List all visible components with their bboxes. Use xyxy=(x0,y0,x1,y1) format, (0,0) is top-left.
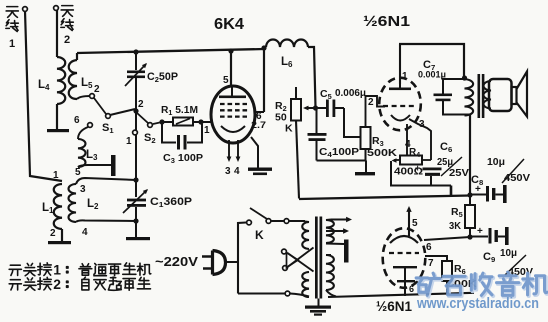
svg-text:2: 2 xyxy=(64,34,70,46)
tube V2 envelope dashed xyxy=(379,78,421,131)
heater winding ground bar xyxy=(326,243,344,246)
L3 terminal 5 to chassis bar xyxy=(78,165,111,167)
label 天线2 xyxy=(61,6,73,17)
svg-text:3: 3 xyxy=(225,166,231,177)
svg-text:2.7: 2.7 xyxy=(251,120,266,130)
resistor R4 400ohm xyxy=(400,156,422,165)
T1 HT secondary xyxy=(326,255,334,290)
R2 bottom wire to B+ rail xyxy=(296,121,299,199)
terminal 2 of L5 xyxy=(90,94,95,99)
svg-text:2: 2 xyxy=(368,97,374,108)
inductor L3 xyxy=(88,123,93,128)
wire antenna2 to L4 xyxy=(56,10,58,57)
output transformer T2 primary xyxy=(462,75,467,80)
ground under L1 xyxy=(48,241,71,244)
node 2 junction xyxy=(133,108,138,113)
T1 voltage selector xyxy=(282,249,287,254)
antenna terminal 2 xyxy=(54,6,59,11)
V2 pin 4 wire xyxy=(406,124,408,156)
svg-text:+: + xyxy=(415,163,420,173)
svg-text:C250P: C250P xyxy=(147,71,178,84)
capacitor C3 100P xyxy=(162,124,176,143)
capacitor C4 100P xyxy=(316,108,318,133)
node junction R2/C4/C5 xyxy=(313,105,318,110)
resistor R3 500K xyxy=(361,127,371,149)
V2 plate xyxy=(399,84,401,88)
R4 left wire with arrow xyxy=(394,159,400,161)
svg-text:6: 6 xyxy=(426,242,432,253)
svg-text:0.006μ: 0.006μ xyxy=(335,87,366,99)
svg-text:2: 2 xyxy=(53,276,61,292)
svg-text:4: 4 xyxy=(82,227,88,238)
svg-text:www.crystalradio.cn: www.crystalradio.cn xyxy=(416,295,539,312)
svg-text:5: 5 xyxy=(223,75,229,86)
wire S1 to node 2 xyxy=(110,109,135,115)
inductor L5 xyxy=(69,60,77,99)
resistor R1 5.1M xyxy=(162,121,173,123)
T1 core ground xyxy=(318,299,320,307)
V3 anode arc xyxy=(390,236,418,243)
svg-text:500K: 500K xyxy=(367,147,397,159)
resistor R5 3K xyxy=(469,197,471,205)
label 天线1 xyxy=(6,7,18,18)
power transformer T1 primary upper xyxy=(305,221,309,224)
svg-text:4: 4 xyxy=(234,166,240,177)
R3 top wire to grid xyxy=(366,96,386,127)
svg-text:3: 3 xyxy=(419,119,425,130)
6K4 plate xyxy=(231,87,233,96)
wire S2 to R1 node xyxy=(153,122,162,124)
wire C6 bottom to rail xyxy=(450,186,453,198)
V3 pin 6 wire to R5 node xyxy=(424,237,470,240)
antenna terminal 1 xyxy=(23,7,28,12)
ground at 6K4 cathode xyxy=(248,168,272,171)
ground under R3 xyxy=(365,161,367,173)
potentiometer R2 50K xyxy=(291,99,301,121)
svg-text:0.001μ: 0.001μ xyxy=(418,70,446,81)
T1 core xyxy=(315,217,318,299)
wire L2-3 to C1 xyxy=(76,178,136,184)
svg-text:K: K xyxy=(285,123,293,135)
B+ rail bottom xyxy=(299,196,470,200)
transformer T2 core xyxy=(478,74,481,118)
capacitor C2 50P variable xyxy=(135,52,137,70)
capacitor C1 360P variable tuning xyxy=(127,199,146,202)
svg-text:½6N1: ½6N1 xyxy=(376,298,412,314)
wire L5 bottom to terminal 2 xyxy=(77,96,90,99)
svg-text:2: 2 xyxy=(50,228,56,239)
svg-text:10μ: 10μ xyxy=(500,247,517,259)
inductor L4 xyxy=(57,57,65,104)
svg-text:450V: 450V xyxy=(504,172,530,184)
svg-text:C3 100P: C3 100P xyxy=(163,152,203,165)
T1 heater secondary xyxy=(326,219,331,222)
T2 secondary xyxy=(484,81,492,109)
capacitor C8 10u/450V xyxy=(467,192,472,197)
svg-text:1: 1 xyxy=(9,38,15,50)
wire L5 top to rail xyxy=(76,53,78,60)
svg-text:5: 5 xyxy=(75,167,81,178)
capacitor C9 10u/450V xyxy=(470,236,488,238)
V2 top wire to output transformer xyxy=(399,44,464,77)
wire node2 to S2 xyxy=(137,113,148,123)
V3 grid dashed xyxy=(389,252,419,254)
V2 grid dashed xyxy=(383,105,417,107)
terminal 1 node xyxy=(135,113,137,130)
ground under C1 xyxy=(126,237,150,240)
V3 pin 7 wire to R6 xyxy=(425,256,447,261)
svg-text:7: 7 xyxy=(428,258,434,269)
V2 pin 1 wire xyxy=(399,44,401,84)
switch S1 xyxy=(94,98,106,114)
svg-text:C4100P: C4100P xyxy=(319,146,359,159)
watermark text xyxy=(416,272,548,297)
svg-text:K: K xyxy=(255,228,264,242)
6K4 pins 3 4 xyxy=(228,140,230,158)
svg-text:C1360P: C1360P xyxy=(150,196,192,209)
V2 grid pin 2 stub xyxy=(377,106,385,108)
svg-text:1: 1 xyxy=(402,71,408,82)
loudspeaker xyxy=(489,79,512,111)
switch S2 xyxy=(148,123,153,128)
wire C5 to R3 xyxy=(344,108,361,137)
ground under L4 xyxy=(47,129,69,132)
wire C4 to R3 ground xyxy=(317,160,367,162)
B+ drop from output transformer xyxy=(469,115,471,196)
power switch K xyxy=(238,223,246,263)
R4 right wire to C6 xyxy=(422,159,431,161)
svg-text:2: 2 xyxy=(94,84,100,95)
svg-text:+: + xyxy=(477,226,483,237)
svg-text:3K: 3K xyxy=(449,220,461,232)
svg-text:1: 1 xyxy=(204,125,210,136)
V3 pin 5 wire with arrow xyxy=(406,206,411,212)
heater bottom wire xyxy=(328,293,474,297)
svg-text:6: 6 xyxy=(74,115,80,126)
tube 6K4 envelope xyxy=(211,86,255,143)
svg-text:½6N1: ½6N1 xyxy=(363,14,410,30)
svg-text:6: 6 xyxy=(409,284,414,294)
svg-text:3: 3 xyxy=(80,184,86,195)
6K4 grids dashed xyxy=(220,103,247,105)
T1 primary lower xyxy=(302,272,309,297)
6K4 pin 6 wire to plate line xyxy=(255,111,264,113)
svg-text:1: 1 xyxy=(126,136,132,147)
top rail xyxy=(77,49,264,53)
wire L2-4 to C1 xyxy=(76,220,136,222)
inductor L6 xyxy=(261,45,266,50)
V3 cathode bars xyxy=(393,266,417,268)
svg-text:1: 1 xyxy=(53,170,59,181)
rectifier tube V3 half 6N1 envelope xyxy=(383,228,426,288)
heater arrows xyxy=(331,219,348,221)
resistor R6 500K xyxy=(442,261,452,281)
svg-text:2: 2 xyxy=(138,99,144,110)
svg-text:6K4: 6K4 xyxy=(214,16,244,33)
svg-text:25V: 25V xyxy=(449,167,469,179)
svg-text:R1 5.1M: R1 5.1M xyxy=(161,104,198,117)
V2 cathode xyxy=(391,115,410,121)
switch note text line 2 xyxy=(9,280,21,290)
wire antenna1 down to L1 xyxy=(25,11,62,181)
switch note text line 1 xyxy=(9,265,21,275)
svg-text:~220V: ~220V xyxy=(155,255,199,269)
V2 pin 3 wire xyxy=(409,119,431,160)
6K4 cathode to ground xyxy=(251,137,258,168)
6K4 cathode xyxy=(221,126,245,132)
capacitor C5 0.006u xyxy=(318,107,326,109)
wire L4 to ground xyxy=(56,104,58,130)
R3 bottom wire xyxy=(365,149,367,161)
svg-text:10μ: 10μ xyxy=(487,156,505,168)
svg-text:5: 5 xyxy=(412,218,418,229)
capacitor C7 0.001u xyxy=(443,79,464,94)
6K4 pin 5 wire xyxy=(230,51,232,87)
